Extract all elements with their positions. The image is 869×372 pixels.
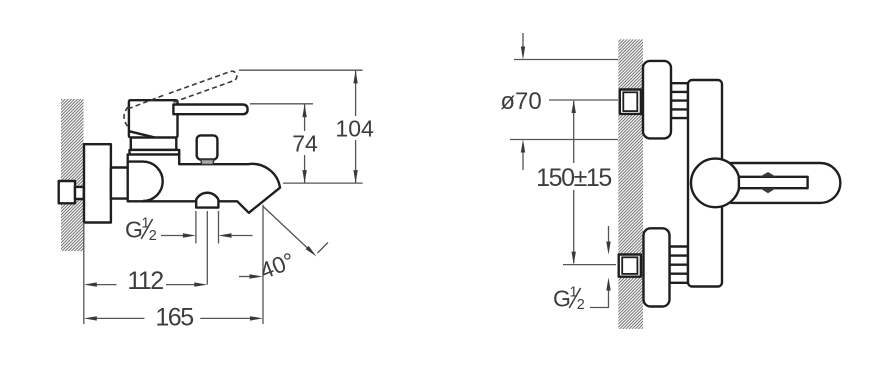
dashed raised handle-body top edge — [128, 95, 164, 109]
center leader line (o70 / 150 top ref) — [549, 99, 618, 101]
arrow 104 bottom — [353, 170, 357, 183]
G1/2 leader arrows left view — [161, 235, 184, 237]
dimension 150+-15 line — [573, 101, 575, 263]
handle chamfer line — [130, 131, 155, 137]
valve body round bulge arc (left view) — [128, 162, 163, 201]
svg-text:112: 112 — [127, 267, 163, 295]
cartridge collar band lower (left view) — [130, 150, 180, 155]
arrow 74 bottom — [302, 170, 306, 183]
40 degree horizontal arrow — [239, 276, 251, 278]
svg-text:G: G — [553, 286, 571, 312]
40 degree leader line — [263, 206, 309, 249]
o70 bottom arrow stub — [522, 152, 524, 170]
slot marker bottom — [760, 188, 776, 193]
o70 top arrow stub — [522, 33, 524, 47]
dimension 112 line — [95, 284, 196, 286]
extension line spout tip bottom ref — [283, 182, 363, 184]
wall fitting neck (left view) — [75, 187, 84, 199]
svg-text:2: 2 — [149, 228, 157, 244]
dashed raised handle-body arc — [124, 107, 129, 128]
bottom supply fitting inner square — [622, 257, 637, 274]
diverter knob stub — [201, 160, 214, 165]
spout tip extension line down — [262, 205, 264, 324]
top reference line — [514, 59, 618, 61]
cartridge collar band upper (left view) — [131, 137, 177, 150]
wall hatching front view — [618, 39, 643, 329]
diverter knob (left view) — [197, 135, 218, 159]
G1/2 extension lines under aerator — [196, 211, 219, 285]
dashed raised lever position — [166, 71, 237, 102]
G1/2 top arrow front view — [608, 226, 610, 242]
slot marker top — [760, 172, 776, 177]
bottom connector ribs — [670, 247, 689, 283]
top escutcheon (front view) — [643, 61, 671, 138]
dimension 74 line — [304, 104, 306, 183]
handle body (left view) — [129, 100, 178, 137]
escutcheon bottom reference line — [510, 139, 618, 141]
temperature slot on spout — [739, 177, 808, 188]
svg-text:2: 2 — [577, 297, 585, 313]
svg-text:165: 165 — [155, 304, 193, 332]
top supply fitting inner square — [623, 92, 637, 111]
aerator / spout outlet (left view) — [196, 193, 218, 208]
top supply fitting square (front view) — [620, 90, 641, 114]
faucet body column (front view) — [688, 80, 722, 287]
dimension 104 line — [355, 70, 357, 183]
wall face extension line down — [83, 223, 85, 325]
bottom supply fitting square (front view) — [619, 255, 641, 277]
wall supply fitting square (left view) — [59, 181, 75, 203]
dimension 165 line — [95, 317, 252, 319]
body neck (left view) — [111, 168, 128, 199]
faucet body and spout outline (left view) — [128, 154, 280, 212]
arrow 104 top — [353, 70, 357, 83]
svg-text:ø70: ø70 — [500, 88, 541, 115]
extension line lever top for 74 — [250, 103, 313, 105]
lever handle horizontal (left view) — [173, 105, 247, 115]
control knob circle (front view) — [691, 159, 740, 208]
arrow 74 top — [302, 104, 306, 117]
extension line top (dashed lever tip) for 104 — [239, 69, 363, 71]
spout capsule (front view) — [731, 163, 840, 203]
bottom escutcheon (front view) — [644, 228, 670, 306]
svg-text:74: 74 — [292, 131, 318, 157]
wall hatching left view — [61, 99, 84, 251]
svg-text:G: G — [125, 217, 143, 243]
bottom fitting center tick line — [563, 264, 616, 266]
svg-text:104: 104 — [335, 115, 374, 141]
G1/2 bottom arrow front view — [590, 290, 609, 308]
top connector ribs — [671, 83, 688, 118]
escutcheon flange (left view) — [84, 144, 111, 222]
svg-text:150±15: 150±15 — [536, 164, 611, 192]
40 degree overshoot tick — [318, 243, 329, 254]
